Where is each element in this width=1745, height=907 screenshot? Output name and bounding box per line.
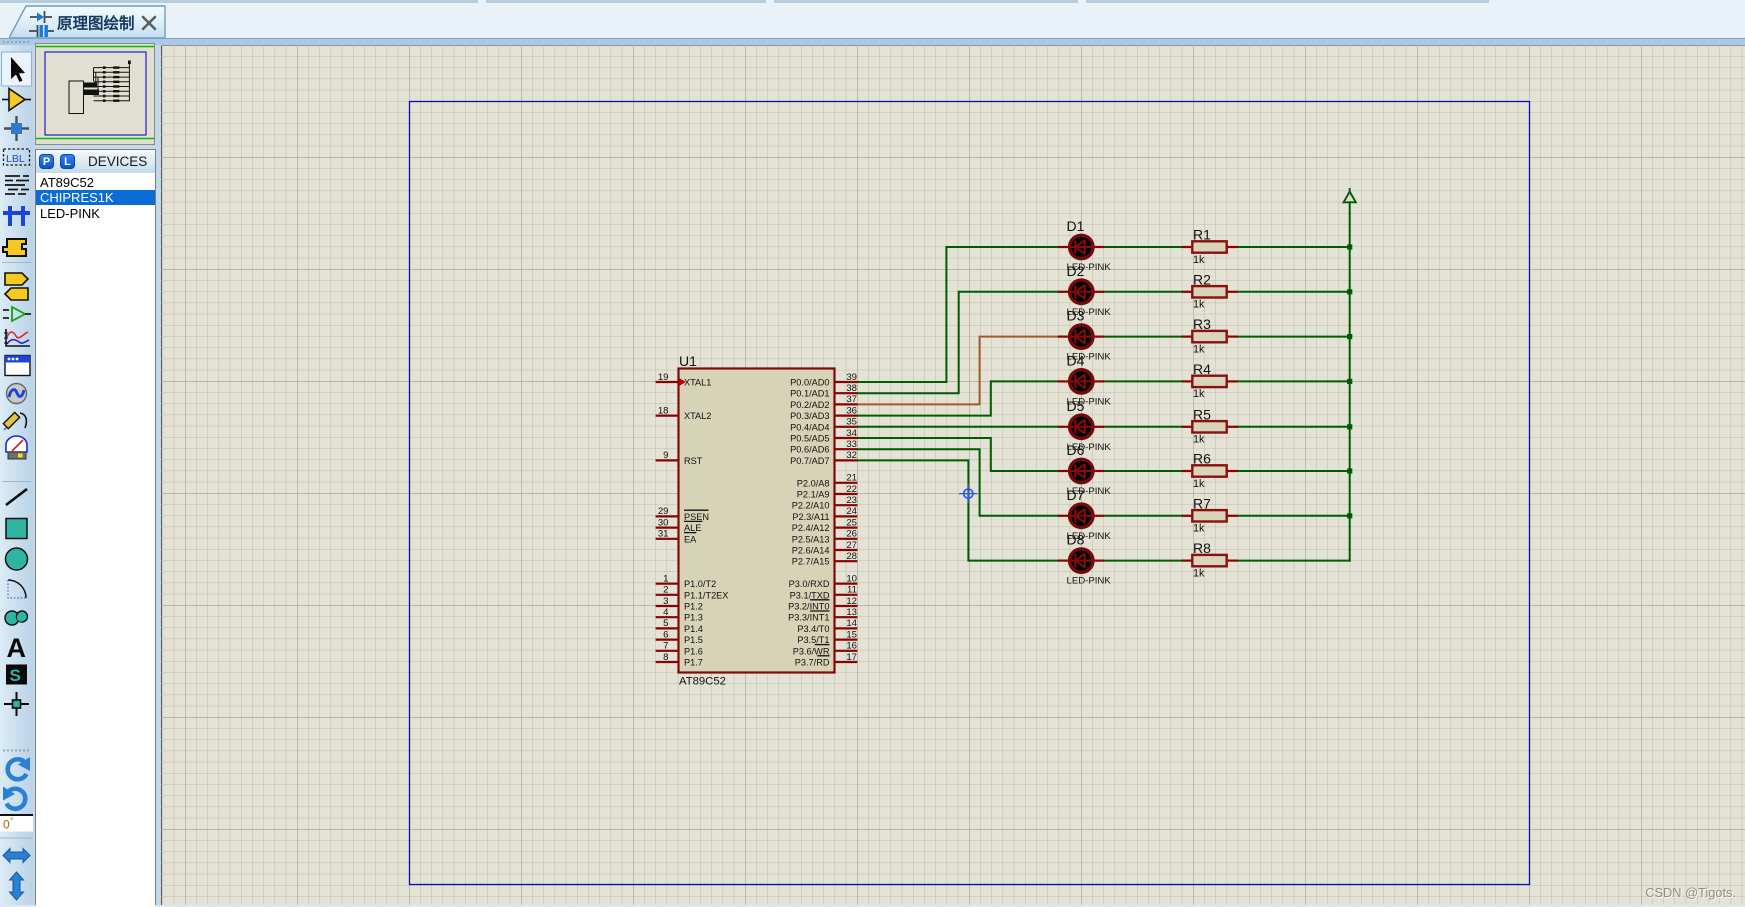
wire U1.P0.1/AD1 to D2 [857,292,1058,393]
svg-text:P1.2: P1.2 [684,602,703,612]
wire U1.P0.3/AD3 to D4 [857,381,1058,415]
U1 pin 3 P1.2 (left) [656,596,703,612]
tool: component mode (yellow buffer) [2,89,31,111]
tool: 2D box [6,519,27,539]
junction node R6/rail [1347,468,1352,473]
svg-text:P3.5/T1: P3.5/T1 [797,635,829,645]
svg-text:XTAL2: XTAL2 [684,411,711,421]
svg-text:EA: EA [684,534,697,544]
svg-text:19: 19 [658,372,669,383]
wire R1 to power rail [1238,246,1350,248]
svg-text:1k: 1k [1193,254,1205,266]
tool: terminals [5,273,28,300]
svg-text:P0.7/AD7: P0.7/AD7 [790,456,829,466]
active tab 原理图绘制 [9,5,166,38]
watermark [1645,885,1737,901]
svg-text:P2.2/A10: P2.2/A10 [792,501,830,511]
svg-text:P1.6: P1.6 [684,646,703,656]
wire D8 to R8 [1104,560,1182,562]
svg-text:XTAL1: XTAL1 [684,378,711,388]
svg-text:0: 0 [3,818,10,832]
angle edit box [0,814,33,838]
svg-text:P2.4/A12: P2.4/A12 [792,523,830,533]
U1 pin 12 P3.2/INT0 (right) [788,596,857,612]
devices panel [35,149,156,906]
U1 pin 19 XTAL1 (left) [656,372,712,388]
wire R7 to power rail [1238,515,1350,517]
U1 pin 24 P2.3/A11 (right) [792,506,857,522]
U1 pin 34 P0.5/AD5 (right) [790,428,857,444]
op-chip U1 AT89C52 body [679,369,835,673]
overview window [35,43,155,145]
svg-text:P2.5/A13: P2.5/A13 [792,534,830,544]
tool: text script [5,176,29,194]
U1 pin 28 P2.7/A15 (right) [792,551,858,567]
tool: y-mirror [10,872,24,900]
svg-text:21: 21 [846,473,857,484]
svg-text:24: 24 [846,506,857,517]
tool: 2D circle [6,548,28,570]
tool: 2D symbol [6,665,27,686]
svg-text:P1.0/T2: P1.0/T2 [684,579,716,589]
U1 pin 38 P0.1/AD1 (right) [790,383,857,399]
svg-text:1k: 1k [1193,299,1205,311]
U1 pin 26 P2.5/A13 (right) [792,529,858,545]
svg-text:1k: 1k [1193,434,1205,446]
U1 pin 18 XTAL2 (left) [656,405,712,421]
svg-text:23: 23 [846,495,857,506]
wire D6 to R6 [1104,470,1182,472]
wire U1.P0.2/AD2 to D3 [857,337,1058,405]
U1 pin 7 P1.6 (left) [656,641,703,657]
svg-text:2: 2 [663,585,668,596]
svg-text:P3.4/T0: P3.4/T0 [797,624,829,634]
U1 pin 31 EA (left) [656,529,698,545]
svg-text:1k: 1k [1193,478,1205,490]
svg-text:1k: 1k [1193,567,1205,579]
U1 pin 5 P1.4 (left) [656,618,703,634]
svg-text:D7: D7 [1067,487,1085,503]
tool: x-mirror [3,849,30,863]
tool: device pin [3,307,31,321]
U1 pin 17 P3.7/RD (right) [795,652,858,668]
resistor R3 [1182,331,1238,342]
svg-text:15: 15 [846,629,857,640]
resistor R8 [1182,555,1238,566]
svg-text:D6: D6 [1067,442,1085,458]
svg-text:P1.3: P1.3 [684,613,703,623]
wire D5 to R5 [1104,426,1182,428]
U1 pin 13 P3.3/INT1 (right) [788,607,857,623]
U1 pin 10 P3.0/RXD (right) [789,573,858,589]
svg-text:32: 32 [846,450,857,461]
LED D1 (LED-PINK) [1058,235,1104,258]
wire D3 to R3 [1104,336,1182,338]
wire R6 to power rail [1238,470,1350,472]
svg-text:R1: R1 [1193,227,1211,243]
wire R3 to power rail [1238,336,1350,338]
junction node R1/rail [1347,244,1352,249]
svg-text:16: 16 [846,641,857,652]
svg-text:U1: U1 [679,353,697,369]
wire D4 to R4 [1104,380,1182,382]
svg-text:P1.4: P1.4 [684,624,703,634]
U1 pin 21 P2.0/A8 (right) [797,473,858,489]
wire D7 to R7 [1104,515,1182,517]
svg-text:38: 38 [846,383,857,394]
svg-text:17: 17 [846,652,857,663]
svg-text:P1.1/T2EX: P1.1/T2EX [684,590,728,600]
left toolbar icons [0,38,33,905]
LED D6 (LED-PINK) [1058,459,1104,482]
svg-text:30: 30 [658,517,669,528]
svg-text:S: S [10,666,21,685]
svg-text:18: 18 [658,405,669,416]
U1 pin 1 P1.0/T2 (left) [656,573,717,589]
U1 pin 15 P3.5/T1 (right) [797,629,857,645]
wire R4 to power rail [1238,380,1350,382]
svg-text:CSDN @Tigots.: CSDN @Tigots. [1645,885,1736,900]
U1 pin 37 P0.2/AD2 (right) [790,394,857,410]
tool: 2D line [6,489,27,505]
wire R5 to power rail [1238,426,1350,428]
junction node R4/rail [1347,379,1352,384]
LED D7 (LED-PINK) [1058,504,1104,527]
resistor R1 [1182,241,1238,252]
svg-text:R8: R8 [1193,540,1211,556]
tool: marker [4,692,29,716]
tool: subcircuit [3,239,26,256]
svg-text:37: 37 [846,394,857,405]
tool: tape recorder [5,356,30,376]
svg-text:28: 28 [846,551,857,562]
U1 pin 23 P2.2/A10 (right) [792,495,858,511]
svg-text:P3.3/INT1: P3.3/INT1 [788,613,829,623]
LED D2 (LED-PINK) [1058,280,1104,303]
svg-text:P0.2/AD2: P0.2/AD2 [790,400,829,410]
svg-text:R5: R5 [1193,406,1211,422]
svg-text:PSEN: PSEN [684,512,709,522]
svg-text:原理图绘制: 原理图绘制 [57,14,135,33]
LED D3 (LED-PINK) [1058,325,1104,348]
junction node R3/rail [1347,334,1352,339]
svg-text:R6: R6 [1193,451,1211,467]
svg-text:29: 29 [658,506,669,517]
U1 pin 25 P2.4/A12 (right) [792,517,858,533]
svg-text:D1: D1 [1067,218,1085,234]
tool: generator [7,384,27,404]
tool: rotate clockwise [8,757,30,779]
U1 pin 2 P1.1/T2EX (left) [656,585,729,601]
svg-text:36: 36 [846,405,857,416]
svg-text:P2.6/A14: P2.6/A14 [792,546,830,556]
svg-text:R4: R4 [1193,361,1211,377]
U1 pin 29 PSEN (left) [656,506,709,522]
svg-text:7: 7 [663,641,668,652]
LED D8 (LED-PINK) [1058,549,1104,572]
svg-text:6: 6 [663,629,668,640]
svg-text:14: 14 [846,618,857,629]
svg-text:1k: 1k [1193,523,1205,535]
U1 pin 9 RST (left) [656,450,703,466]
svg-text:R3: R3 [1193,316,1211,332]
resistor R4 [1182,376,1238,387]
wire power rail vertical [1349,202,1351,560]
wire U1.P0.4/AD4 to D5 [857,426,1058,428]
svg-text:LBL: LBL [6,153,25,165]
wire U1.P0.0/AD0 to D1 [857,247,1058,382]
svg-text:°: ° [10,817,13,826]
U1 pin 22 P2.1/A9 (right) [797,484,858,500]
svg-text:39: 39 [846,372,857,383]
U1 pin 32 P0.7/AD7 (right) [790,450,857,466]
junction node R5/rail [1347,424,1352,429]
svg-text:22: 22 [846,484,857,495]
svg-text:RST: RST [684,456,703,466]
svg-text:P0.3/AD3: P0.3/AD3 [790,411,829,421]
svg-text:P2.0/A8: P2.0/A8 [797,478,830,488]
resistor R6 [1182,465,1238,476]
resistor R7 [1182,510,1238,521]
svg-text:11: 11 [847,585,857,596]
svg-text:P3.0/RXD: P3.0/RXD [789,579,830,589]
tool: buses [3,206,30,226]
svg-text:P3.6/WR: P3.6/WR [793,646,830,656]
U1 pin 8 P1.7 (left) [656,652,703,668]
U1 pin 4 P1.3 (left) [656,607,703,623]
power terminal VCC [1344,188,1356,202]
svg-text:10: 10 [846,573,857,584]
svg-text:12: 12 [846,596,857,607]
svg-text:A: A [7,633,27,663]
wire D1 to R1 [1104,246,1182,248]
svg-text:P2.3/A11: P2.3/A11 [792,512,829,522]
svg-text:5: 5 [663,618,668,629]
svg-text:P0.0/AD0: P0.0/AD0 [790,378,829,388]
U1 pin 30 ALE (left) [656,517,703,533]
svg-text:9: 9 [663,450,668,461]
svg-text:P3.1/TXD: P3.1/TXD [790,590,830,600]
U1 pin 14 P3.4/T0 (right) [797,618,857,634]
svg-text:P1.7: P1.7 [684,658,703,668]
svg-text:31: 31 [658,529,669,540]
wire-routing cursor [959,484,978,503]
junction node R7/rail [1347,513,1352,518]
U1 pin 33 P0.6/AD6 (right) [790,439,857,455]
svg-text:D4: D4 [1067,352,1085,368]
svg-text:LED-PINK: LED-PINK [1067,576,1112,587]
svg-text:P2.1/A9: P2.1/A9 [797,490,830,500]
sheet border [410,102,1530,885]
svg-text:P0.1/AD1: P0.1/AD1 [790,389,829,399]
resistor R2 [1182,286,1238,297]
svg-text:P1.5: P1.5 [684,635,703,645]
svg-text:1: 1 [663,573,668,584]
svg-text:8: 8 [663,652,668,663]
svg-text:33: 33 [846,439,857,450]
svg-text:27: 27 [846,540,857,551]
U1 pin 27 P2.6/A14 (right) [792,540,858,556]
tool: wire label [4,149,30,165]
svg-text:34: 34 [846,428,857,439]
U1 pin 36 P0.3/AD3 (right) [790,405,857,421]
svg-text:1k: 1k [1193,343,1205,355]
wire R2 to power rail [1238,291,1350,293]
tool: selection arrow (active) [2,52,32,86]
tool: junction dot [4,116,29,141]
wire U1.P0.6/AD6 to D7 [857,449,1058,516]
tool: graph mode [4,329,30,346]
wire U1.P0.5/AD5 to D6 [857,438,1058,471]
wire R8 to power rail [1238,560,1350,562]
svg-text:R2: R2 [1193,271,1211,287]
LED D4 (LED-PINK) [1058,370,1104,393]
U1 pin 39 P0.0/AD0 (right) [790,372,857,388]
resistor R5 [1182,421,1238,432]
tool: current probe [6,436,27,459]
svg-text:26: 26 [846,529,857,540]
U1 pin 16 P3.6/WR (right) [793,641,858,657]
svg-text:P0.5/AD5: P0.5/AD5 [790,434,829,444]
svg-text:D8: D8 [1067,532,1085,548]
top toolbar strip segments [0,0,478,3]
svg-text:D3: D3 [1067,308,1085,324]
svg-text:25: 25 [846,517,857,528]
wire D2 to R2 [1104,291,1182,293]
tool: 2D arc [8,580,26,598]
tool: 2D closed path [5,611,28,625]
svg-text:AT89C52: AT89C52 [679,676,726,688]
U1 pin 11 P3.1/TXD (right) [790,585,858,601]
svg-text:1k: 1k [1193,388,1205,400]
svg-text:ALE: ALE [684,523,701,533]
svg-text:P3.7/RD: P3.7/RD [795,658,830,668]
svg-text:D5: D5 [1067,398,1085,414]
svg-text:P0.4/AD4: P0.4/AD4 [790,422,829,432]
tool: voltage probe [3,412,26,430]
U1 pin 35 P0.4/AD4 (right) [790,417,857,433]
svg-text:4: 4 [663,607,669,618]
svg-text:R7: R7 [1193,495,1211,511]
svg-text:P3.2/INT0: P3.2/INT0 [788,602,829,612]
svg-text:3: 3 [663,596,668,607]
svg-text:P2.7/A15: P2.7/A15 [792,557,830,567]
U1 pin 6 P1.5 (left) [656,629,703,645]
svg-text:13: 13 [846,607,857,618]
junction node R2/rail [1347,289,1352,294]
svg-text:P0.6/AD6: P0.6/AD6 [790,445,829,455]
tool: rotate anticlockwise [3,787,25,809]
LED D5 (LED-PINK) [1058,415,1104,438]
wire U1.P0.7/AD7 to D8 [857,460,1058,560]
svg-text:D2: D2 [1067,263,1085,279]
svg-text:35: 35 [846,417,857,428]
